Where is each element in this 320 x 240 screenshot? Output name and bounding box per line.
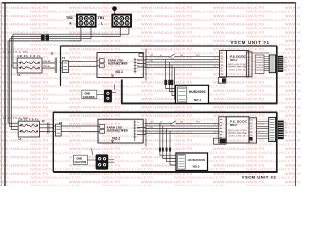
svg-text:OUTPUT +5VDC 30A: OUTPUT +5VDC 30A <box>228 66 247 69</box>
svg-text:J1: J1 <box>51 52 55 56</box>
svg-text:SW1: SW1 <box>171 125 175 127</box>
svg-text:F2: F2 <box>59 121 63 125</box>
svg-text:F: F <box>70 21 72 25</box>
svg-text:BRL.AL: BRL.AL <box>44 65 52 68</box>
svg-text:1A: 1A <box>17 74 20 77</box>
svg-text:NO.2: NO.2 <box>230 123 237 127</box>
svg-text:BRL.AL: BRL.AL <box>44 60 52 63</box>
svg-text:SW1: SW1 <box>171 59 175 61</box>
svg-text:GND: GND <box>77 156 83 160</box>
svg-text:OUTPUT +5VDC 30A: OUTPUT +5VDC 30A <box>228 132 247 135</box>
svg-text:FILTER RECTIFIER: FILTER RECTIFIER <box>108 62 128 66</box>
svg-text:NO.1: NO.1 <box>230 58 237 62</box>
svg-text:VSCM UNIT #1: VSCM UNIT #1 <box>231 40 270 45</box>
svg-text:TB1: TB1 <box>98 16 105 20</box>
svg-text:CM DC F R FL: CM DC F R FL <box>17 56 41 58</box>
svg-text:NO.1: NO.1 <box>116 70 124 74</box>
svg-text:AR SC P.R.AL BRL: AR SC P.R.AL BRL <box>3 117 30 120</box>
svg-text:1A: 1A <box>18 138 21 141</box>
svg-text:TB2: TB2 <box>66 16 73 20</box>
svg-text:CHASSIS: CHASSIS <box>83 95 95 99</box>
svg-text:+12VDC -12VDC 2A: +12VDC -12VDC 2A <box>228 68 246 71</box>
svg-text:HUB2000S: HUB2000S <box>188 158 206 162</box>
svg-text:J2: J2 <box>42 119 46 123</box>
svg-text:FILTER RECTIFIER: FILTER RECTIFIER <box>107 128 128 132</box>
svg-text:HUB2000S: HUB2000S <box>189 90 206 94</box>
svg-text:NO.2: NO.2 <box>193 164 200 168</box>
svg-text:NO.2: NO.2 <box>112 136 120 140</box>
svg-text:CHASSIS: CHASSIS <box>75 160 87 164</box>
svg-text:NO.1: NO.1 <box>194 98 201 102</box>
svg-text:VSCM UNIT #2: VSCM UNIT #2 <box>242 175 277 180</box>
svg-text:GND: GND <box>85 91 91 95</box>
svg-text:INPUT +24V~27.5VDC: INPUT +24V~27.5VDC <box>228 64 248 66</box>
svg-text:L: L <box>101 21 103 25</box>
svg-text:+12VDC -12VDC 2A: +12VDC -12VDC 2A <box>228 135 246 138</box>
svg-text:F1: F1 <box>62 56 66 60</box>
svg-text:INPUT +24V~27.5VDC: INPUT +24V~27.5VDC <box>228 130 248 132</box>
svg-text:AR SC P.R.AL BRL: AR SC P.R.AL BRL <box>3 51 30 54</box>
